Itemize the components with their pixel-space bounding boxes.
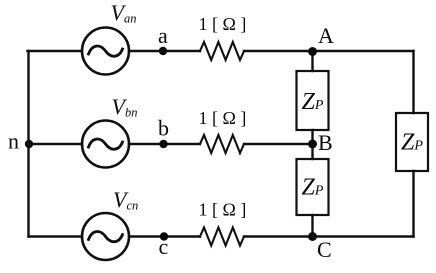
wire node B to ZP2 (311, 144, 313, 159)
svg-text:1 [ Ω ]: 1 [ Ω ] (199, 108, 247, 128)
impedance ZP3 box right (396, 113, 428, 171)
svg-text:ZP: ZP (401, 130, 423, 156)
wire top branch left (28, 50, 83, 52)
svg-text:ZP: ZP (302, 175, 324, 201)
wire ZP1 to node B (311, 130, 313, 144)
ac source Vcn (82, 213, 129, 260)
wire right rail upper (412, 51, 414, 113)
ac source Vbn (82, 121, 129, 168)
node B junction (308, 140, 317, 149)
svg-text:1 [ Ω ]: 1 [ Ω ] (199, 14, 247, 34)
wire left rail n (27, 51, 29, 237)
wire ZP2 to node C (311, 215, 313, 237)
resistor R1 1 Ohm top (200, 42, 244, 60)
ac source Van (82, 28, 129, 75)
wire top branch a (129, 50, 200, 52)
svg-text:Van: Van (111, 0, 137, 26)
wire middle branch b (129, 143, 200, 145)
wire middle branch to node B (244, 143, 313, 145)
svg-text:B: B (318, 130, 333, 155)
svg-text:c: c (159, 234, 169, 259)
svg-text:ZP: ZP (302, 89, 324, 115)
node n (25, 140, 33, 148)
node A junction (308, 47, 317, 56)
impedance ZP1 box (297, 71, 329, 130)
svg-text:Vbn: Vbn (112, 94, 138, 120)
resistor R3 1 Ohm bottom (200, 228, 244, 246)
svg-text:C: C (317, 237, 332, 262)
wire top branch A to right (244, 50, 414, 52)
wire bottom branch c (129, 235, 200, 237)
wire bottom branch C to right (244, 235, 414, 237)
svg-text:Vcn: Vcn (113, 187, 138, 213)
svg-text:b: b (158, 116, 169, 141)
wire right rail lower (412, 171, 414, 237)
node b (159, 140, 167, 148)
svg-text:n: n (8, 129, 19, 154)
node c (160, 232, 168, 240)
svg-text:1 [ Ω ]: 1 [ Ω ] (199, 200, 247, 220)
svg-text:A: A (318, 23, 334, 48)
resistor R2 1 Ohm middle (200, 135, 244, 153)
node a (159, 47, 167, 55)
svg-text:a: a (158, 23, 168, 48)
wire middle branch left (29, 143, 83, 145)
impedance ZP2 box (297, 159, 329, 215)
node C junction (308, 232, 317, 241)
wire bottom branch left (29, 235, 83, 237)
wire node A to ZP1 (311, 51, 313, 71)
